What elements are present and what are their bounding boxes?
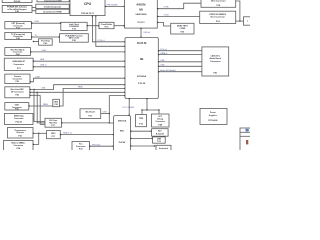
box: flat label 3 [36, 9, 69, 13]
wire: FSB CPU to NB [105, 5, 125, 8]
svg-text:DMI x4: DMI x4 [144, 32, 152, 34]
svg-text:945GM: 945GM [137, 2, 147, 6]
svg-text:CH B: CH B [164, 15, 170, 17]
box: power switch board [2, 5, 32, 13]
wire: port replicator stub [33, 41, 39, 43]
svg-text:SPD/Tach: SPD/Tach [92, 144, 101, 146]
box: DDR2 test connector [171, 23, 194, 34]
wire: 3G to EC vertical [62, 122, 110, 124]
svg-text:P.41,42: P.41,42 [14, 0, 21, 3]
wire: SB azalia to audio board [158, 69, 202, 72]
box: camera connector [5, 74, 30, 83]
wire: CPU down to SB (1) [92, 16, 125, 42]
wire: CH B NB to DDR B [157, 15, 200, 18]
svg-text:Dual-Channel DDR: Dual-Channel DDR [44, 0, 62, 2]
svg-text:Supplies: Supplies [209, 115, 218, 117]
wire: RGB CRT to M1 [31, 21, 61, 24]
svg-text:BlueTooth: BlueTooth [86, 111, 96, 114]
box: DDR2 SO-DIMM A (cut at top) [201, 0, 236, 7]
svg-text:478 BGA: 478 BGA [137, 75, 146, 78]
wire: new card stub 3 [30, 95, 41, 96]
wire: camera USB to SB [30, 76, 126, 82]
wire: SB USB1 to audio board [158, 60, 202, 62]
box: LPC debug connector [152, 114, 170, 127]
box: battery connector (cut at bottom) [4, 140, 33, 150]
box: port replicator [39, 39, 53, 45]
wire: mini pcie USB to SB [30, 50, 125, 53]
svg-text:CONN: CONN [179, 28, 185, 30]
svg-text:CPU: CPU [84, 2, 92, 6]
box: ICH7-M SB [125, 38, 158, 99]
svg-text:USB: USB [103, 112, 108, 114]
box: TPM [136, 115, 147, 127]
svg-text:HDA: HDA [40, 58, 45, 61]
box: power supplies [200, 108, 227, 124]
box: clock generator M1 [61, 22, 87, 30]
svg-text:USB: USB [41, 88, 46, 90]
svg-text:909/511A: 909/511A [118, 120, 127, 123]
box: touchpad [152, 129, 169, 137]
svg-text:P.26: P.26 [54, 104, 57, 106]
box: SATA giga connector [5, 113, 34, 124]
box: DDR2 SO-DIMM B [200, 11, 236, 23]
svg-text:SATA Giga: SATA Giga [14, 115, 25, 118]
box: TV connector [5, 32, 32, 40]
wire: TV to M2 [31, 35, 60, 38]
box: USB board [153, 137, 166, 143]
svg-text:FSB 667MHz: FSB 667MHz [107, 5, 119, 7]
box: audio board connectors [202, 47, 229, 76]
svg-text:P.57-64,68: P.57-64,68 [208, 119, 218, 122]
svg-text:Main Connector: Main Connector [211, 0, 226, 3]
wire: DDR A right jog down [236, 1, 240, 21]
svg-text:Keyboard: Keyboard [159, 148, 169, 150]
box: function board M2 [60, 34, 89, 43]
wire: EC to USB board [131, 138, 153, 140]
svg-text:Dual-Channel TDMS: Dual-Channel TDMS [43, 12, 62, 14]
box: flat label 2 [36, 4, 69, 8]
wire: EC to touchpad [131, 130, 152, 132]
svg-text:SP Connector: SP Connector [11, 90, 24, 93]
box: HDD connector [53, 99, 60, 106]
svg-text:USB x2: USB x2 [40, 64, 47, 66]
svg-text:P.47-48: P.47-48 [119, 141, 126, 144]
wire: SB SATA to audio board [158, 52, 202, 55]
wire: temp to MDC [33, 132, 47, 134]
svg-text:SB: SB [140, 57, 144, 61]
svg-text:P.12,13: P.12,13 [138, 22, 146, 24]
svg-text:LPC 33MHZ: LPC 33MHZ [123, 107, 135, 109]
title block bottom right [240, 128, 252, 151]
svg-text:Power: Power [210, 112, 216, 114]
box: tiny right edge connector [244, 17, 252, 25]
svg-text:Connector: Connector [13, 78, 23, 81]
svg-text:Azalia (HD-Audio): Azalia (HD-Audio) [160, 69, 176, 72]
svg-text:USB: USB [36, 76, 41, 78]
svg-text:SATA x1: SATA x1 [160, 52, 168, 55]
svg-text:CH A: CH A [164, 6, 170, 9]
wire: M3 to NB [114, 25, 125, 27]
svg-text:USB: USB [160, 60, 165, 62]
wire: SMBus MDC to EC [60, 133, 114, 136]
wire: CH A NB to DDR A [157, 3, 201, 9]
wire: M1 to M3 [87, 25, 99, 27]
svg-text:Sensors: Sensors [16, 132, 25, 134]
svg-text:Audio Board: Audio Board [210, 57, 222, 60]
box: clock buffer M3 [99, 22, 114, 28]
wire: DMI NB to SB [140, 28, 151, 38]
wire: EC to keyboard [131, 145, 157, 147]
box: new card connector [5, 87, 30, 98]
svg-text:P.21-28: P.21-28 [138, 83, 146, 85]
wire: SB USB2 to audio board [158, 65, 202, 67]
wire: power board to flat box 2 [32, 7, 36, 9]
box: 3G connector [45, 118, 62, 127]
wire: SB PCIe to audio board [158, 49, 202, 51]
svg-text:ICH7-M: ICH7-M [137, 41, 147, 45]
svg-text:P.05,06,70,71: P.05,06,70,71 [81, 13, 95, 15]
svg-text:Connectors: Connectors [210, 60, 222, 63]
svg-text:Connector: Connector [14, 117, 24, 120]
wire: fan SPD/Tach to EC [89, 144, 114, 147]
wire: SB to EC vertical [129, 98, 130, 116]
wire: DDR B to tiny right box [236, 20, 244, 22]
svg-text:TPM: TPM [139, 118, 143, 120]
box: CPU (cut at top) [70, 0, 105, 16]
svg-text:PATA: PATA [43, 103, 48, 106]
svg-text:B-CA-7B: B-CA-7B [156, 132, 165, 135]
box: MDC connector [47, 131, 61, 139]
wire: vertical riser 1 to 3G [34, 89, 45, 121]
svg-text:SMBus x5: SMBus x5 [63, 133, 73, 135]
box: fan connector (cut at bottom) [72, 142, 90, 152]
wire: power board to flat box 3 [32, 10, 36, 12]
wire: new card USB to SB (jog up) [30, 84, 126, 90]
wire: new card stub 2 long to SB [30, 92, 126, 93]
wire: azalia HDA to SB [33, 58, 126, 62]
wire: vertical riser 3 to 3G [40, 95, 45, 124]
box: power indicator (top-left, cut at top) [2, 0, 32, 3]
svg-text:Connector: Connector [13, 144, 23, 147]
svg-text:RGB: RGB [35, 21, 40, 23]
box: azalia codec [4, 58, 33, 70]
box: keyboard (cut at bottom) [156, 145, 171, 151]
svg-text:AZALIA/AC97: AZALIA/AC97 [12, 60, 25, 63]
svg-text:2-Video/Composite: 2-Video/Composite [44, 6, 62, 9]
svg-text:LAN 3/0 &: LAN 3/0 & [211, 54, 221, 57]
svg-text:PATA: PATA [78, 86, 83, 89]
svg-text:MDC: MDC [51, 133, 56, 135]
svg-text:1466FCBGA: 1466FCBGA [135, 13, 147, 16]
svg-text:USB: USB [42, 50, 47, 52]
svg-text:Next Connector: Next Connector [211, 16, 226, 19]
wire: LPC bus SB down [123, 98, 160, 115]
wire: PATA ODD to SB via riser [29, 86, 126, 107]
wire: battery riser to temp wire [33, 133, 39, 144]
box: temperature sensors [8, 128, 34, 139]
box: bluetooth [80, 109, 101, 119]
svg-text:PCIE x1: PCIE x1 [98, 40, 106, 42]
wire: SB down to BT and EC [101, 95, 126, 124]
box: flat label 1 Dual-Channel (cut at top) [37, 0, 69, 2]
svg-text:Connector: Connector [155, 120, 165, 123]
svg-text:NB: NB [139, 7, 143, 11]
svg-text:Connectors: Connectors [13, 63, 25, 66]
svg-text:USB: USB [160, 65, 165, 67]
wire: CPU down to SB (2) [96, 16, 125, 47]
box: Mini PCI-E connector [5, 48, 31, 56]
box: ODD connector [5, 103, 29, 111]
wire: vertical riser 2 to 3G [37, 92, 45, 123]
svg-text:PCIe x1: PCIe x1 [160, 49, 168, 51]
svg-text:P.22,25: P.22,25 [16, 122, 23, 124]
box: EC KBC (cut at bottom) [114, 116, 131, 151]
box: CRT connector [5, 22, 32, 30]
svg-text:Connector: Connector [76, 145, 86, 148]
box: 945GM NB (cut at top) [125, 0, 158, 28]
wire: azalia USB to SB [33, 64, 126, 67]
svg-text:KBC: KBC [120, 131, 125, 133]
wire: NB to debug connector [157, 22, 170, 26]
